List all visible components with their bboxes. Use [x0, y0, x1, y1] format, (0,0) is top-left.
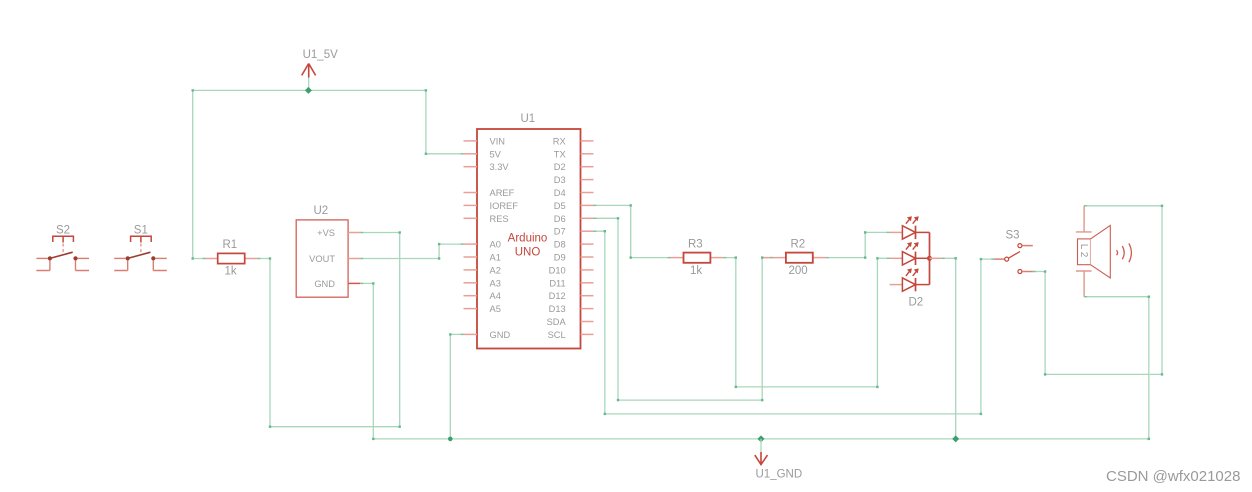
svg-text:1k: 1k [690, 265, 702, 277]
power symbol U1_5V arrow [302, 64, 316, 78]
svg-text:RX: RX [553, 136, 566, 146]
speaker L2 [1076, 206, 1132, 297]
svg-text:R2: R2 [791, 239, 806, 251]
svg-text:D10: D10 [549, 265, 566, 275]
svg-text:GND: GND [490, 330, 511, 340]
svg-text:D6: D6 [554, 214, 566, 224]
IC U2 [296, 220, 360, 297]
node junction Arduino GND [448, 437, 453, 442]
node 5V junction diamond [305, 87, 312, 94]
svg-text:D12: D12 [549, 291, 566, 301]
wire R1 right to +VS of U2 [258, 233, 400, 427]
svg-text:3.3V: 3.3V [490, 162, 510, 172]
resistor R1 [205, 253, 257, 263]
svg-text:RES: RES [490, 214, 509, 224]
svg-text:VIN: VIN [490, 136, 506, 146]
wire U2 VOUT to A0 [360, 244, 463, 258]
ground symbol U1_GND arrow [760, 439, 762, 452]
wire R2 right to LED1 anode [826, 232, 890, 257]
svg-text:IOREF: IOREF [490, 201, 519, 211]
svg-text:A0: A0 [490, 240, 501, 250]
svg-text:D11: D11 [549, 278, 565, 288]
svg-text:AREF: AREF [490, 188, 515, 198]
svg-text:200: 200 [789, 265, 808, 277]
wire ground rail [373, 438, 1149, 440]
node junction LED return diamond [952, 435, 959, 442]
svg-text:L2: L2 [1078, 244, 1089, 260]
wire speaker bottom to ground rail [1084, 297, 1149, 439]
wire D7 to S3 common [594, 231, 995, 414]
resistor R2 [762, 253, 826, 263]
svg-text:D13: D13 [549, 304, 566, 314]
wire 5V rail down to R1 [193, 90, 206, 258]
svg-text:D7: D7 [554, 227, 566, 237]
svg-text:U2: U2 [314, 205, 329, 217]
wire U2 GND down to ground rail [360, 283, 373, 439]
wire Arduino GND to rail [450, 334, 463, 439]
wire corner caps [192, 89, 1164, 440]
svg-text:5V: 5V [490, 149, 502, 159]
svg-text:S1: S1 [134, 225, 148, 237]
svg-text:GND: GND [314, 279, 335, 289]
svg-text:SCL: SCL [548, 330, 566, 340]
svg-text:U1_5V: U1_5V [303, 49, 338, 61]
svg-text:D8: D8 [554, 240, 566, 250]
svg-text:U1: U1 [521, 113, 536, 125]
wire LED cathodes to ground rail [942, 258, 956, 439]
svg-text:A2: A2 [490, 265, 501, 275]
LED group D2 [890, 216, 942, 291]
svg-text:A5: A5 [490, 304, 501, 314]
svg-text:D2: D2 [554, 162, 566, 172]
svg-text:Arduino: Arduino [508, 233, 548, 245]
svg-text:S2: S2 [56, 225, 70, 237]
svg-text:UNO: UNO [515, 247, 541, 259]
svg-text:R1: R1 [223, 239, 238, 251]
wire power stem [308, 78, 310, 91]
svg-text:S3: S3 [1006, 230, 1020, 242]
wire D6 to R2 [594, 218, 773, 400]
svg-text:D2: D2 [909, 297, 924, 309]
svg-text:TX: TX [554, 149, 566, 159]
switch S2 [36, 236, 89, 270]
switch S1 [114, 236, 167, 270]
svg-text:D3: D3 [554, 175, 566, 185]
wire R3 right to LED2 anode [723, 258, 889, 387]
wire D5 to R3 [594, 205, 671, 257]
svg-text:D5: D5 [554, 201, 566, 211]
svg-text:A1: A1 [490, 253, 501, 263]
resistor R3 [671, 253, 724, 263]
IC U1 Arduino UNO [464, 129, 594, 349]
svg-text:CSDN @wfx021028: CSDN @wfx021028 [1106, 468, 1240, 485]
svg-text:U1_GND: U1_GND [756, 469, 803, 481]
svg-text:R3: R3 [688, 239, 703, 251]
svg-text:+VS: +VS [317, 228, 335, 238]
node junction U1_GND diamond [758, 435, 765, 442]
svg-text:SDA: SDA [547, 317, 567, 327]
switch S3 [994, 244, 1033, 274]
svg-text:A3: A3 [490, 278, 501, 288]
svg-text:VOUT: VOUT [309, 254, 335, 264]
wire S3 throw2 to speaker top [1033, 206, 1162, 375]
wire end ticks [203, 154, 1088, 335]
svg-text:A4: A4 [490, 291, 501, 301]
svg-text:D4: D4 [554, 188, 566, 198]
wire 5V top rail [193, 90, 464, 153]
svg-text:D9: D9 [554, 253, 566, 263]
svg-text:1k: 1k [225, 266, 237, 278]
